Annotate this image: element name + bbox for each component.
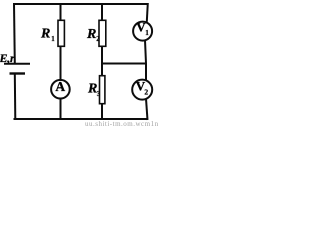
wire R3 to bottom [101,105,103,120]
wire right middle segment [145,40,146,81]
wire middle horizontal [101,63,146,65]
svg-text:R: R [86,27,96,42]
voltmeter V2 [132,78,152,99]
wire R2 branch top [101,4,103,20]
svg-text:R: R [40,27,50,42]
wire left upper [13,3,16,64]
svg-text:2: 2 [96,36,100,43]
wire R2 to R3 [101,47,103,75]
svg-text:1: 1 [51,36,55,43]
wire right bottom segment [146,99,148,120]
ammeter A [51,79,70,98]
svg-text:E,r: E,r [0,51,15,65]
wire bottom [14,118,149,120]
svg-text:3: 3 [97,91,101,98]
svg-text:2: 2 [144,88,148,97]
resistor R1 [40,20,64,46]
wire R1 branch top [60,4,62,20]
wire top [14,3,149,5]
wire left lower [14,74,17,121]
wire ammeter to bottom [60,98,62,119]
svg-text:A: A [55,79,65,94]
svg-text:uu.shiti-tm.om.wcm1n: uu.shiti-tm.om.wcm1n [85,120,159,128]
resistor R2 [86,20,106,46]
wire R1 to ammeter [60,47,62,82]
voltmeter V1 [133,20,152,41]
wire right top segment [147,3,148,22]
battery E,r [0,51,30,74]
svg-text:R: R [87,82,97,97]
svg-text:1: 1 [145,29,149,37]
resistor R3 [87,76,105,104]
